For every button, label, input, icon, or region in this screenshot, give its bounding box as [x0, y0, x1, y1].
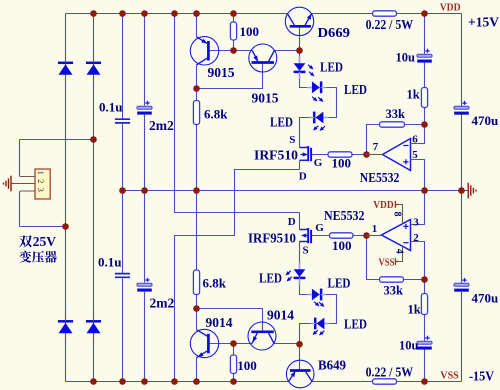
svg-text:6.8k: 6.8k — [203, 276, 227, 291]
wire U2 pin2 to feedback node — [411, 242, 425, 280]
svg-text:0.1u: 0.1u — [98, 255, 121, 270]
svg-text:2: 2 — [413, 232, 419, 244]
node 33k 1k lower — [421, 276, 428, 283]
svg-text:0.1u: 0.1u — [99, 100, 122, 115]
svg-text:+15V: +15V — [468, 15, 499, 30]
diode D3 rectifier — [58, 311, 73, 343]
svg-text:6.8k: 6.8k — [204, 107, 228, 122]
capacitor 2m2 lower electrolytic — [137, 278, 152, 292]
svg-text:33k: 33k — [386, 107, 406, 121]
capacitor 2m2 upper electrolytic — [137, 101, 152, 115]
svg-text:8: 8 — [392, 212, 403, 217]
wire D669 emitter to +15V corner — [312, 13, 462, 15]
capacitor 0.1u lower — [115, 274, 130, 278]
wire 100R lower column — [233, 344, 235, 382]
wire 33k to 1k node — [405, 124, 425, 126]
svg-text:LED: LED — [344, 82, 367, 97]
resistor 1k upper — [421, 88, 427, 108]
capacitor 470u upper — [454, 101, 469, 115]
resistor 6.8k lower — [193, 270, 199, 295]
svg-text:100: 100 — [237, 358, 256, 373]
diode D2 rectifier — [86, 53, 101, 85]
node top rail 100R — [230, 10, 237, 17]
node ground 2m2 — [141, 187, 148, 194]
wire LED4 to LED5 — [300, 278, 308, 295]
ground earth at output common — [468, 183, 476, 199]
wire IRF9510 gate to 100R — [312, 235, 330, 237]
wire 33k to 1k lower node — [404, 279, 425, 281]
wire feedback node up to 33k — [367, 125, 380, 155]
wire bottom rail to IRF510 drain — [175, 170, 300, 382]
wire Q4 base to 6.8k lower node — [197, 309, 263, 332]
node ground output rail — [458, 187, 465, 194]
wire IRF9510 source to LED4 — [299, 242, 301, 270]
node U2 output — [363, 232, 370, 239]
svg-text:D: D — [299, 171, 307, 183]
svg-text:7: 7 — [373, 141, 379, 153]
wire Q3 base — [209, 343, 234, 345]
svg-text:9014: 9014 — [267, 308, 294, 323]
wire 1k lower through 10u to VSS node — [424, 280, 426, 382]
svg-text:D: D — [288, 216, 296, 228]
svg-text:VDD: VDD — [373, 199, 394, 211]
transistor Q3 9014 NPN — [190, 329, 218, 357]
node VSS output — [421, 378, 428, 385]
svg-text:IRF510: IRF510 — [254, 148, 298, 163]
wire Q2 base to 6.8k top node — [197, 63, 263, 89]
svg-text:VSS: VSS — [440, 370, 459, 382]
resistor 100 lower (Q3 base) — [230, 355, 236, 374]
wire LED2 to LED3 — [326, 88, 337, 118]
node bottom rail 100R — [230, 378, 237, 385]
wire 100R upper column — [233, 14, 235, 51]
resistor 0.22/5W upper — [373, 11, 397, 16]
resistor 1k lower — [421, 294, 427, 315]
svg-text:10u: 10u — [399, 339, 419, 353]
wire Q4 collector to B649 base node — [274, 343, 299, 345]
svg-text:100: 100 — [240, 24, 260, 39]
svg-text:2m2: 2m2 — [149, 118, 174, 133]
transistor Q1 9015 PNP — [190, 37, 218, 65]
wire Q1 base to Q2 emitter — [209, 50, 253, 52]
svg-text:3: 3 — [36, 188, 45, 192]
wire top unregulated plus rail — [66, 13, 288, 15]
wire U1 pin6 to feedback node — [411, 125, 425, 144]
svg-text:10u: 10u — [396, 51, 416, 65]
wire lower feedback node down to 33k — [367, 236, 380, 280]
wire 2m2 caps column — [144, 14, 146, 382]
diode D4 rectifier — [86, 311, 101, 343]
wire Q3 base to Q4 emitter — [234, 343, 253, 345]
svg-text:9014: 9014 — [206, 315, 233, 330]
node Q1 base 100R — [230, 47, 237, 54]
svg-text:LED: LED — [344, 317, 367, 332]
diode D1 rectifier — [58, 53, 73, 85]
wire rectifier column 2 — [93, 14, 95, 382]
wire B649 emitter to -15V corner — [313, 381, 462, 383]
svg-text:S: S — [303, 245, 309, 257]
node Q3 base 100R — [230, 340, 237, 347]
wire LED6 to B649 base — [300, 324, 312, 371]
node B649 base LED6 — [296, 341, 303, 348]
node 6.8k top — [193, 85, 200, 92]
node top rail 9015 emitter — [193, 10, 200, 17]
node bottom rail 9014 emitter — [193, 378, 200, 385]
resistor 0.22/5W lower — [373, 379, 397, 384]
wire transformer bottom terminal to AC node — [20, 226, 66, 228]
node ground 6.8k — [193, 187, 200, 194]
transistor B649 PNP pass element — [286, 360, 314, 388]
wire Q2 collector to D669 base node — [274, 50, 299, 52]
svg-text:D669: D669 — [318, 26, 351, 41]
svg-text:4: 4 — [393, 249, 404, 254]
svg-text:470u: 470u — [472, 291, 499, 306]
svg-text:3: 3 — [413, 217, 419, 229]
svg-text:IRF9510: IRF9510 — [248, 231, 296, 246]
MOSFET IRF510 N-channel — [300, 146, 312, 170]
svg-text:6: 6 — [412, 134, 418, 146]
svg-text:33k: 33k — [384, 284, 404, 298]
label transformer Chinese: dual — [19, 234, 56, 249]
resistor 33k upper feedback — [380, 122, 405, 127]
wire right output rail through 470u caps — [461, 14, 463, 382]
svg-text:G: G — [314, 157, 323, 169]
svg-text:5: 5 — [412, 149, 418, 161]
label transformer Chinese: transformer — [19, 251, 56, 263]
transistor Q2 9015 PNP — [249, 44, 277, 72]
wire 100R to op-amp U2 output — [353, 235, 382, 237]
node D669 base LED1 — [296, 47, 303, 54]
svg-text:9015: 9015 — [252, 91, 279, 106]
svg-text:100: 100 — [332, 156, 352, 171]
LED 2 (upper chain) — [307, 81, 325, 102]
wire LED3 to IRF510 source — [300, 118, 310, 148]
svg-text:1k: 1k — [407, 88, 420, 102]
wire rectifier column 1 — [65, 14, 67, 382]
wire bottom unregulated minus rail — [66, 381, 289, 383]
op-amp U1 NE5532 upper — [367, 139, 419, 171]
wire 0.1u caps column — [122, 14, 124, 382]
LED 6 (lower chain) — [311, 318, 329, 336]
node top rail D2 — [90, 10, 97, 17]
op-amp U2 NE5532 lower — [367, 205, 419, 262]
svg-text:-15V: -15V — [469, 369, 494, 384]
node transformer AC2 — [62, 223, 69, 230]
svg-text:NE5532: NE5532 — [324, 208, 365, 223]
MOSFET IRF9510 P-channel — [300, 228, 312, 243]
wire IRF9510 drain stub — [299, 213, 301, 230]
wire D669 base to LED1 — [299, 26, 301, 63]
resistor 100 IRF510 gate — [328, 152, 352, 157]
svg-text:NE5532: NE5532 — [360, 170, 400, 185]
LED 5 (lower chain) — [307, 289, 325, 307]
svg-text:LED: LED — [320, 60, 343, 75]
wire 6.8k column through 9015 and 9014 — [196, 14, 198, 382]
wire 1k bottom to node — [424, 108, 426, 125]
node ground op-amp inputs — [421, 187, 428, 194]
svg-text:S: S — [289, 134, 295, 146]
capacitor 10u lower — [417, 336, 432, 350]
transistor D669 NPN pass element — [285, 7, 313, 35]
node top rail 0.1u — [119, 10, 126, 17]
resistor 100 IRF9510 gate — [330, 233, 354, 238]
wire ground mid rail — [123, 190, 469, 192]
wire LED5 to LED6 — [326, 295, 337, 324]
svg-text:1: 1 — [36, 171, 45, 175]
svg-text:B649: B649 — [318, 359, 346, 374]
svg-text:1: 1 — [372, 223, 378, 235]
power port VDD (U2 pin 8) — [395, 201, 398, 208]
svg-text:25V: 25V — [33, 234, 57, 249]
node top rail drain branch — [171, 10, 178, 17]
svg-text:0.22 / 5W: 0.22 / 5W — [366, 366, 414, 381]
wire U1 pin5 to ground rail — [411, 160, 425, 191]
ground earth at transformer center tap — [4, 176, 12, 192]
capacitor 470u lower — [454, 278, 469, 292]
wire top rail to IRF9510 drain — [175, 14, 300, 213]
node VDD output — [421, 10, 428, 17]
transformer T1 dual 25V secondary — [11, 169, 50, 199]
LED 4 (lower chain) — [286, 263, 306, 286]
capacitor 10u upper — [417, 49, 432, 63]
svg-text:1k: 1k — [408, 303, 421, 317]
wire transformer secondary stubs — [19, 140, 21, 227]
node bottom rail 0.1u — [119, 378, 126, 385]
svg-text:VSS: VSS — [379, 257, 395, 269]
svg-text:470u: 470u — [472, 113, 499, 128]
svg-text:LED: LED — [270, 115, 293, 130]
svg-text:G: G — [315, 222, 324, 234]
svg-text:2: 2 — [36, 179, 45, 183]
capacitor 0.1u upper — [115, 119, 130, 123]
wire VDD node through 10u to 1k — [424, 14, 426, 88]
node bottom rail 2m2 — [141, 378, 148, 385]
svg-text:100: 100 — [332, 238, 352, 253]
LED 1 (upper chain) — [294, 56, 315, 79]
wire LED1 to LED2 — [300, 72, 308, 88]
svg-text:0.22 / 5W: 0.22 / 5W — [366, 18, 414, 33]
power port VSS (U2 pin 4) — [395, 258, 398, 265]
svg-text:2m2: 2m2 — [150, 296, 175, 311]
transistor Q4 9014 NPN — [248, 322, 276, 350]
wire IRF510 gate to 100R — [312, 154, 329, 156]
svg-text:VDD: VDD — [440, 2, 461, 14]
resistor 100 upper (Q1 base) — [230, 22, 236, 40]
svg-text:LED: LED — [259, 271, 282, 286]
wire U2 pin3 to ground rail — [411, 191, 425, 225]
node bottom rail drain branch — [171, 378, 178, 385]
svg-text:LED: LED — [328, 276, 351, 291]
wire 100R to op-amp U1 output — [352, 154, 383, 156]
node U1 output — [363, 151, 370, 158]
node transformer AC1 — [90, 136, 97, 143]
node ground 0.1u — [119, 187, 126, 194]
node top rail 2m2 — [141, 10, 148, 17]
svg-text:9015: 9015 — [208, 65, 235, 80]
node 33k 1k upper — [421, 121, 428, 128]
node 6.8k bottom — [193, 305, 200, 312]
resistor 6.8k upper — [193, 101, 199, 125]
LED 3 (upper chain) — [310, 112, 328, 131]
wire transformer top terminal to AC node — [20, 139, 94, 141]
resistor 33k lower feedback — [380, 277, 404, 282]
node bottom rail D4 — [90, 378, 97, 385]
